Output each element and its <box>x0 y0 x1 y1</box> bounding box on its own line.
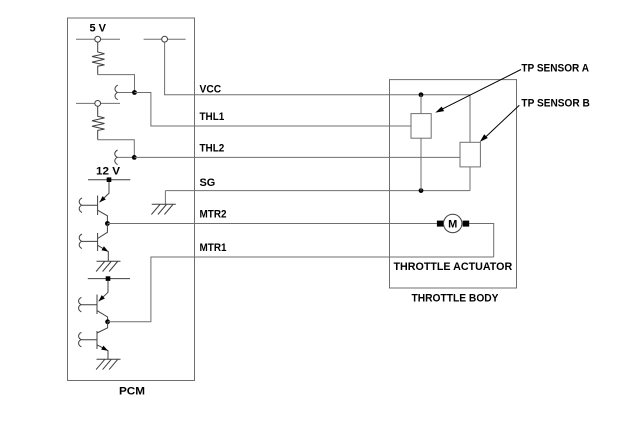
wire SG <box>165 190 470 192</box>
transistor Q1 collector wire <box>98 210 108 223</box>
wire TP sensor A return <box>420 138 422 190</box>
transistor Q1 (PNP) emitter wire <box>100 182 110 202</box>
5V supply terminal 3 (circle) <box>95 101 101 107</box>
ground (SG) <box>151 204 175 214</box>
transistor Q3 base <box>81 295 97 315</box>
wire MTR1 <box>108 257 494 322</box>
TP sensor A box <box>411 114 431 139</box>
transistor Q3 (PNP) emitter wire <box>99 281 108 301</box>
svg-text:THROTTLE BODY: THROTTLE BODY <box>412 293 500 305</box>
connector brace at Q3 base <box>79 297 82 312</box>
svg-text:M: M <box>448 219 457 231</box>
connector brace at Q1 base <box>79 198 82 213</box>
transistor Q1 emitter arrowhead <box>100 196 106 202</box>
svg-text:PCM: PCM <box>119 386 145 398</box>
connector brace at Q2 base <box>79 234 82 249</box>
connector brace at THL1 node <box>115 85 118 100</box>
5V supply terminal 1 (circle) <box>95 36 101 42</box>
5V supply terminal 2 (bar, top right) <box>144 38 186 40</box>
svg-text:THL2: THL2 <box>200 143 225 155</box>
wire motor to MTR1 riser <box>469 224 494 258</box>
junction dot VCC / TP sensor A feed <box>419 92 424 97</box>
motor M1 brush right <box>463 221 470 227</box>
svg-text:SG: SG <box>200 177 216 189</box>
motor M1 brush left <box>437 221 444 227</box>
transistor Q1 base <box>82 196 98 216</box>
svg-text:TP SENSOR A: TP SENSOR A <box>521 63 589 75</box>
transistor Q3 emitter arrowhead <box>99 295 105 301</box>
connector brace at THL2 node <box>115 150 118 165</box>
leader arrow to TP sensor B <box>485 105 520 137</box>
transistor Q2 (NPN) collector wire <box>98 224 108 239</box>
wire from R1 to THL1 node <box>98 75 135 93</box>
wire THL2 <box>134 156 460 158</box>
ground below Q2 <box>96 261 120 271</box>
ground below Q4 <box>96 359 120 369</box>
svg-text:THL1: THL1 <box>200 111 225 123</box>
wire VCC <box>165 42 470 95</box>
wire stub from brace to junction <box>117 156 134 158</box>
transistor Q2 emitter arrowhead <box>102 246 109 251</box>
wire from R2 to THL2 node <box>98 140 135 158</box>
wire TP sensor A feed <box>420 95 422 114</box>
wire TP sensor B feed <box>469 95 471 143</box>
12V terminal bar <box>88 179 130 181</box>
svg-text:TP SENSOR B: TP SENSOR B <box>521 97 589 109</box>
5V supply terminal 1 (bar) <box>76 38 120 40</box>
resistor R2 <box>92 106 105 140</box>
transistor Q4 base <box>81 331 97 349</box>
resistor R1 <box>92 42 105 75</box>
5V supply terminal 3 (bar) <box>76 102 120 104</box>
wire stub from brace to junction <box>118 92 135 94</box>
transistor Q4 (NPN) collector wire <box>97 322 108 333</box>
PCM box <box>68 18 195 381</box>
motor M1 body <box>444 214 462 232</box>
svg-text:MTR2: MTR2 <box>200 209 227 221</box>
12V terminal square <box>107 177 112 182</box>
wire MTR2 <box>107 223 437 225</box>
12V terminal 2 bar <box>88 278 130 280</box>
junction dot MTR1 <box>105 319 110 324</box>
svg-text:12 V: 12 V <box>96 166 121 178</box>
12V terminal 2 square <box>106 276 111 281</box>
svg-text:VCC: VCC <box>200 83 222 95</box>
throttle body box <box>390 80 517 288</box>
TP sensor B box <box>460 142 480 167</box>
svg-text:MTR1: MTR1 <box>200 242 227 254</box>
svg-text:THROTTLE ACTUATOR: THROTTLE ACTUATOR <box>394 261 513 273</box>
junction dot THL1 <box>132 90 137 95</box>
junction dot THL2 <box>132 155 137 160</box>
transistor Q4 emitter arrowhead <box>101 346 108 351</box>
wire TP sensor B return <box>469 167 471 191</box>
svg-text:5 V: 5 V <box>90 23 107 35</box>
transistor Q2 emitter wire <box>98 245 109 261</box>
connector brace at Q4 base <box>79 332 82 347</box>
junction dot MTR2 <box>105 221 110 226</box>
junction dot SG / TP sensor A return <box>419 188 424 193</box>
transistor Q4 emitter wire <box>97 345 108 360</box>
wire THL1 <box>135 93 412 127</box>
5V supply terminal 2 (circle) <box>162 36 168 42</box>
leader arrow to TP sensor A <box>442 70 522 110</box>
transistor Q2 base <box>82 233 98 251</box>
transistor Q3 collector wire <box>97 311 108 322</box>
wire stub SG to ground <box>164 191 166 205</box>
